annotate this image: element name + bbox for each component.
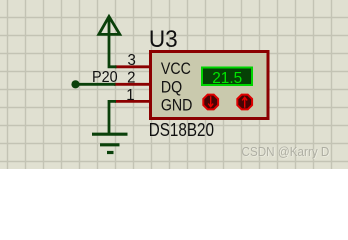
svg-text:2: 2 bbox=[127, 69, 135, 86]
svg-text:DS18B20: DS18B20 bbox=[149, 119, 214, 140]
svg-text:3: 3 bbox=[128, 52, 136, 69]
svg-text:DQ: DQ bbox=[161, 78, 182, 96]
svg-text:CSDN @Karry D: CSDN @Karry D bbox=[242, 144, 330, 159]
svg-text:VCC: VCC bbox=[161, 60, 191, 78]
svg-text:U3: U3 bbox=[149, 25, 178, 52]
svg-text:1: 1 bbox=[126, 86, 134, 103]
svg-text:21.5: 21.5 bbox=[212, 70, 242, 87]
svg-text:GND: GND bbox=[161, 96, 193, 114]
svg-text:P20: P20 bbox=[92, 68, 118, 86]
